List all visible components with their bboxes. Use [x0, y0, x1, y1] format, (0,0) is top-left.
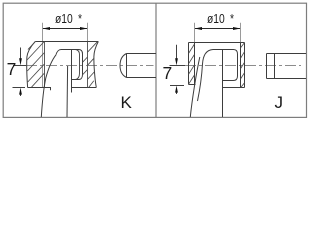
block bottom flange left K — [28, 88, 52, 91]
dimension Ø10 arrows J — [195, 27, 241, 30]
rod flat cap J — [267, 54, 307, 79]
pin head outline K — [56, 50, 83, 80]
dimension Ø10 extension lines J — [195, 23, 241, 43]
dimension 7 arrows K — [19, 58, 22, 94]
dimension Ø10 line K — [43, 28, 87, 30]
block top line J — [189, 42, 245, 44]
dimension Ø10 arrows K — [43, 27, 88, 30]
hatch right wall J — [241, 43, 245, 88]
dimension 7 arrows J — [175, 58, 178, 92]
dimension 7 upper extension J — [170, 65, 186, 67]
pin left wall curve into stem J — [198, 50, 214, 102]
dimension Ø10 extension lines K — [43, 23, 88, 88]
hole left edge K — [44, 42, 46, 88]
rod dome cap K — [120, 54, 156, 78]
text Ø10* J — [207, 11, 234, 26]
hatch left wall J — [189, 44, 195, 84]
centerline J — [185, 65, 301, 67]
stem right line J — [222, 50, 224, 118]
centerline K — [26, 65, 154, 67]
block left wall J — [189, 43, 196, 85]
block right concave profile K — [94, 42, 98, 88]
stem left line J — [190, 57, 200, 117]
block right wall J — [241, 43, 245, 88]
block left concave profile K — [27, 42, 35, 88]
hole right edge K — [87, 42, 89, 88]
pin bore inner end K — [76, 50, 80, 80]
hatch left wall K — [27, 42, 45, 87]
hatch right wall K — [88, 42, 98, 87]
text 7 K — [7, 59, 17, 80]
text 7 J — [163, 63, 173, 84]
pin bore left wall K — [71, 50, 73, 93]
block bottom flange right K — [72, 87, 97, 89]
dimension 7 upper extension K — [13, 65, 26, 67]
text Ø10* K — [55, 11, 82, 26]
label J — [275, 93, 284, 113]
hatch gap right of pin K — [83, 57, 88, 75]
dimension 7 J — [170, 45, 184, 94]
stem right line K — [66, 66, 69, 117]
pin head outline J — [213, 50, 238, 81]
block top line K — [35, 41, 98, 43]
border frame — [3, 3, 306, 117]
dimension 7 K — [13, 48, 26, 97]
dimension Ø10 line J — [195, 28, 240, 30]
block bottom right J — [223, 87, 245, 89]
label K — [121, 93, 132, 113]
stem left curve K — [41, 55, 56, 117]
